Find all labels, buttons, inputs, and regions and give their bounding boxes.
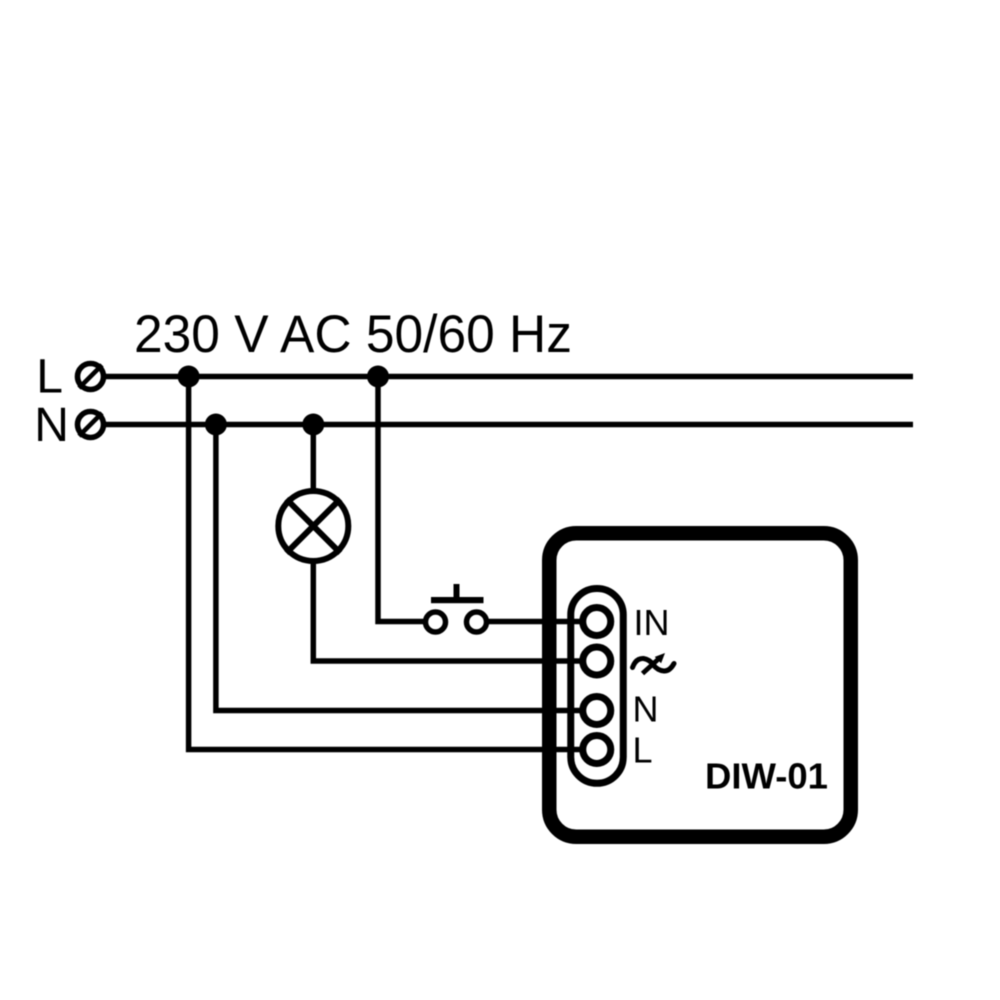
wire L drop to terminal L [189,377,583,750]
dimmer output symbol (tilde with arrow) [633,653,675,674]
wire N to lamp [311,425,317,496]
junction node on N at x=216 [205,414,227,436]
push button S1 [426,584,487,632]
terminal ring dimmer output [583,647,611,675]
device box DIW-01 [549,533,851,837]
terminal L screw (circle with slash) [78,364,104,390]
junction node on L at x=189 [178,366,200,388]
terminal N screw (circle with slash) [78,412,104,438]
wire push button to IN [487,619,583,625]
junction node on N at x=313 [302,414,324,436]
terminal ring L [583,736,611,764]
svg-text:N: N [633,689,659,730]
wire L drop to push button [378,377,425,622]
svg-text:DIW-01: DIW-01 [705,756,828,797]
junction node on L at x=378 [367,366,389,388]
terminal block pill [571,589,624,784]
wire L bus [104,374,913,380]
terminal ring N [583,697,611,725]
wire N bus [104,422,913,428]
svg-text:N: N [34,399,69,452]
terminal ring IN [583,608,611,636]
lamp E1 [278,491,348,561]
svg-text:IN: IN [634,602,670,643]
wire N drop to terminal N [216,425,583,711]
svg-text:230 V AC 50/60 Hz: 230 V AC 50/60 Hz [134,305,572,364]
svg-text:L: L [633,729,653,770]
svg-text:L: L [36,351,63,404]
wire lamp to dimmer output [313,557,583,661]
